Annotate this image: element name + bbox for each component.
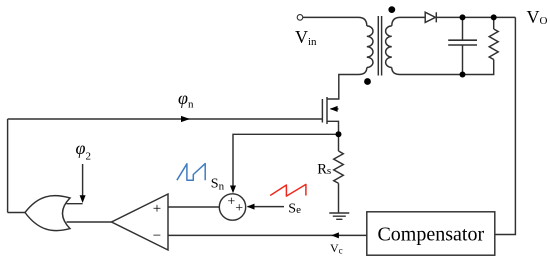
label Vin — [295, 27, 317, 48]
transformer T1 secondary winding — [386, 26, 392, 68]
wire OR output — [8, 212, 25, 214]
wire secondary bottom rail to load resistor — [392, 60, 494, 75]
compensator box — [367, 212, 495, 255]
svg-text:+: + — [153, 201, 161, 217]
arrow Se into summing junction — [247, 204, 255, 210]
svg-text:+: + — [235, 201, 243, 216]
label phi-2 — [76, 138, 91, 163]
label Se — [288, 201, 301, 216]
wire MOSFET source to Rs — [338, 134, 340, 151]
label minus comparator — [153, 228, 161, 244]
capacitor C plates — [448, 40, 477, 45]
transformer polarity dot secondary — [388, 6, 395, 13]
wire load resistor top lead — [493, 17, 495, 29]
label Sn — [211, 177, 225, 193]
svg-text:Rs: Rs — [317, 162, 331, 178]
junction dot cap top — [460, 14, 466, 20]
label phi-n — [178, 88, 194, 111]
OR gate G1 — [25, 196, 70, 231]
wire current-sense from source node to summing junction — [233, 134, 339, 187]
arrow Vc toward comparator — [331, 232, 339, 238]
wire comparator output to OR input — [67, 221, 112, 223]
svg-text:φ2: φ2 — [76, 138, 91, 163]
resistor R load — [489, 29, 498, 60]
svg-text:−: − — [153, 228, 161, 244]
junction dot resistor top — [491, 14, 497, 20]
transformer T1 core — [378, 16, 381, 76]
svg-text:φn: φn — [178, 88, 194, 111]
waveform Sn blue — [177, 164, 205, 181]
wire diode cathode top rail — [436, 16, 515, 18]
junction dot source node — [336, 131, 342, 137]
label Vc — [330, 241, 343, 256]
terminal Vin — [297, 15, 303, 21]
svg-text:Sn: Sn — [211, 177, 225, 193]
wire Se arrow line — [248, 206, 285, 208]
op-amp comparator U1 — [112, 194, 169, 250]
resistor Rs — [334, 151, 344, 183]
arrow phi-n on gate wire — [181, 116, 190, 122]
wire secondary top to diode anode — [392, 17, 425, 26]
wire summing junction to comparator plus input — [168, 206, 219, 208]
svg-text:Vc: Vc — [330, 241, 343, 256]
label Vo — [527, 7, 548, 27]
label Rs — [317, 162, 331, 178]
wire phi-n gate drive horizontal — [8, 118, 323, 120]
label Compensator — [377, 224, 484, 246]
label plus comparator — [153, 201, 161, 217]
arrow phi-2 into OR gate — [80, 195, 86, 203]
wire OR top input stub — [67, 203, 83, 205]
transistor Q1 MOSFET — [322, 97, 338, 134]
label plus summing bottom-right — [235, 201, 243, 216]
transformer T1 primary winding — [367, 26, 373, 68]
wire right drop Vo feedback to compensator — [495, 17, 515, 234]
wire capacitor bottom lead — [462, 45, 464, 75]
svg-text:Se: Se — [288, 201, 301, 216]
wire phi-2 arrow line — [82, 164, 84, 197]
svg-text:Compensator: Compensator — [377, 224, 484, 246]
wire Vc compensator to comparator minus input — [168, 234, 367, 236]
arrow into summing junction from top — [230, 186, 236, 194]
svg-text:Vin: Vin — [295, 27, 317, 48]
wire primary bottom to MOSFET drain — [327, 68, 367, 100]
wire Vin to primary — [303, 17, 367, 26]
label plus summing top-left — [227, 195, 235, 210]
svg-text:+: + — [227, 195, 235, 210]
wire Rs to ground — [338, 183, 340, 213]
waveform Se red — [270, 184, 306, 196]
junction dot cap bottom — [460, 72, 466, 78]
svg-text:VO: VO — [527, 7, 548, 27]
diode D1 — [425, 12, 436, 22]
summing junction S1 — [219, 194, 245, 220]
ground — [329, 213, 349, 219]
wire capacitor top lead — [462, 17, 464, 40]
transformer polarity dot primary — [364, 78, 371, 85]
wire left feedback vertical — [7, 119, 9, 213]
transistor Q1 body arrow — [330, 106, 338, 112]
